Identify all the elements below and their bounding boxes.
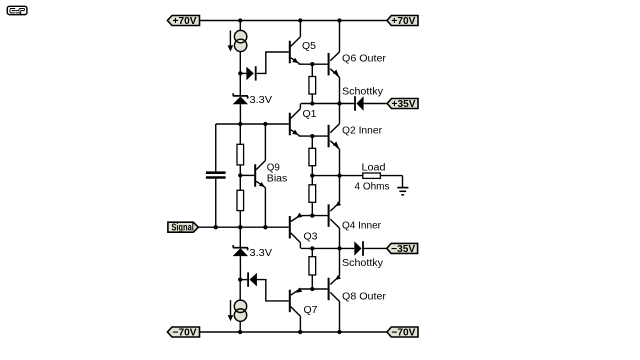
svg-text:+70V: +70V	[173, 16, 197, 27]
svg-text:Schottky: Schottky	[342, 86, 383, 97]
svg-text:Q4 Inner: Q4 Inner	[342, 220, 382, 231]
svg-text:3.3V: 3.3V	[250, 248, 273, 259]
svg-text:Q2 Inner: Q2 Inner	[342, 125, 383, 136]
svg-text:Signal: Signal	[171, 223, 194, 234]
svg-text:Q9: Q9	[267, 163, 280, 174]
svg-text:−35V: −35V	[391, 244, 415, 255]
svg-text:3.3V: 3.3V	[250, 95, 273, 106]
svg-text:Load: Load	[362, 162, 386, 173]
svg-text:+70V: +70V	[391, 16, 415, 27]
svg-text:Q8 Outer: Q8 Outer	[342, 292, 387, 303]
svg-text:Q7: Q7	[304, 305, 318, 316]
svg-text:+35V: +35V	[392, 99, 416, 110]
svg-text:Bias: Bias	[267, 174, 288, 185]
svg-text:Q6 Outer: Q6 Outer	[342, 54, 387, 65]
svg-text:Q5: Q5	[302, 41, 316, 52]
svg-text:4 Ohms: 4 Ohms	[355, 182, 390, 193]
svg-text:−70V: −70V	[391, 328, 415, 339]
svg-text:Schottky: Schottky	[342, 258, 383, 269]
svg-text:Q1: Q1	[303, 109, 317, 120]
svg-text:Q3: Q3	[304, 232, 318, 243]
svg-text:−70V: −70V	[173, 328, 197, 339]
